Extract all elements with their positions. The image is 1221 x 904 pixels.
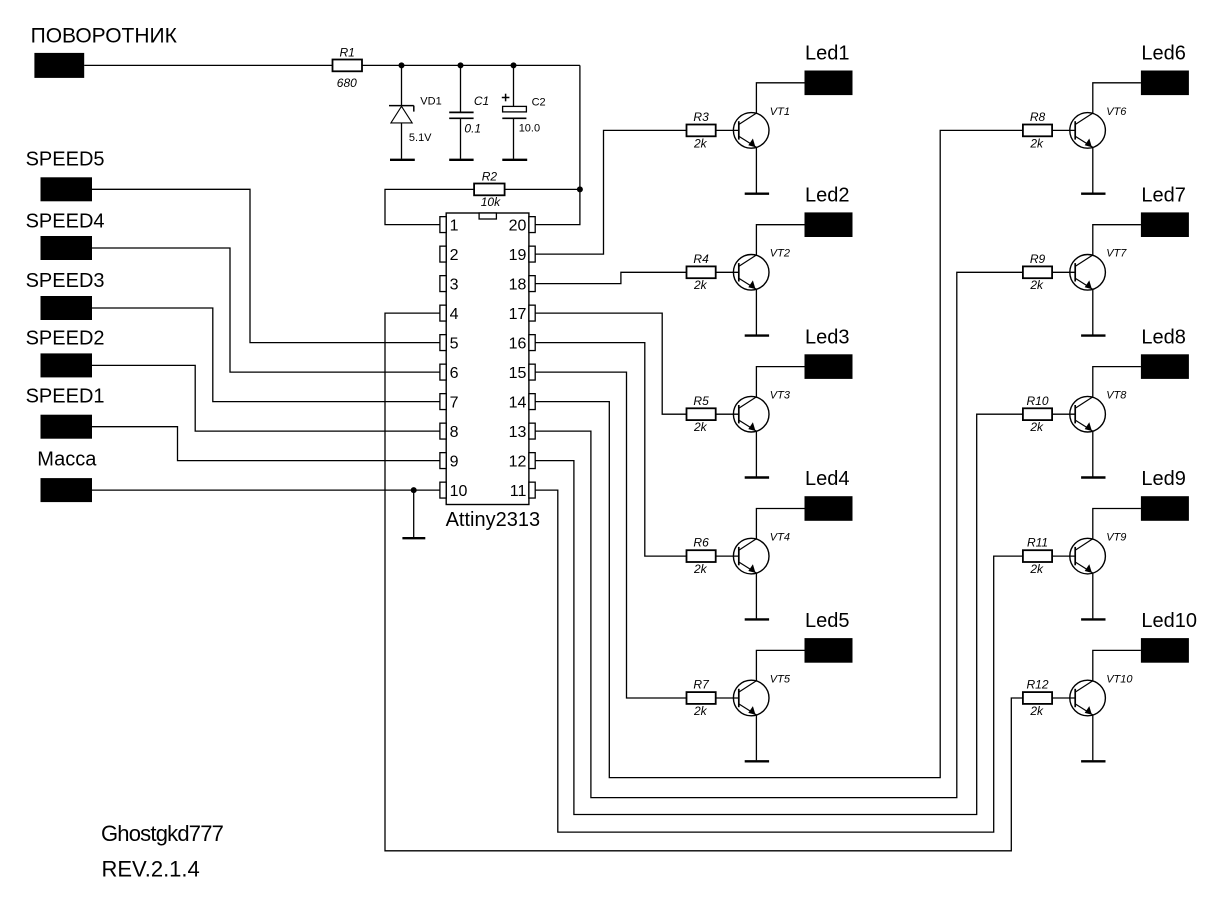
- wire feed to R5: [535, 313, 686, 414]
- ground under VT7: [1081, 334, 1105, 336]
- ground under VT2: [745, 334, 769, 336]
- svg-text:SPEED1: SPEED1: [26, 386, 105, 408]
- label REV.2.1.4: [102, 857, 200, 882]
- wire VT4 collector to Led4: [756, 509, 804, 539]
- svg-text:5.1V: 5.1V: [409, 132, 432, 144]
- svg-text:20: 20: [509, 217, 527, 234]
- pad SPEED1: [26, 386, 105, 439]
- pad Led6: [1141, 43, 1189, 96]
- wire VT5 emitter to ground: [755, 715, 757, 761]
- pad Led8: [1141, 326, 1189, 379]
- pad Led2: [805, 184, 853, 237]
- svg-text:R3: R3: [693, 110, 709, 124]
- wire rail to C2: [513, 65, 515, 106]
- wire VT8 collector to Led8: [1093, 367, 1141, 397]
- svg-text:R10: R10: [1026, 394, 1048, 408]
- svg-text:VD1: VD1: [420, 96, 441, 108]
- wire rail to C1: [460, 65, 462, 111]
- svg-text:C2: C2: [532, 96, 546, 108]
- svg-text:18: 18: [509, 276, 527, 293]
- pin 4: [440, 305, 459, 323]
- pin 14: [509, 394, 536, 412]
- wire SPEED3 to pin: [92, 308, 440, 402]
- svg-text:2k: 2k: [1029, 704, 1044, 718]
- pin 13: [509, 423, 536, 441]
- wire feed to R12: [385, 313, 1023, 851]
- svg-text:Led7: Led7: [1141, 184, 1186, 206]
- ground under VT8: [1081, 476, 1105, 478]
- transistor VT9: [1070, 532, 1127, 574]
- svg-text:VT2: VT2: [770, 248, 790, 260]
- pad ПОВОРОТНИК (turn-signal input): [31, 25, 178, 78]
- svg-text:10: 10: [450, 483, 468, 500]
- svg-text:Led1: Led1: [805, 43, 850, 65]
- wire R9 to base: [1052, 271, 1075, 273]
- wire VD1 anode to ground: [401, 123, 403, 159]
- resistor R7: [687, 678, 716, 718]
- resistor R12: [1023, 678, 1052, 718]
- svg-text:2k: 2k: [1029, 420, 1044, 434]
- ground under VT10: [1081, 760, 1105, 762]
- svg-text:Масса: Масса: [37, 448, 97, 470]
- svg-text:R7: R7: [693, 678, 710, 692]
- ground under VT4: [745, 618, 769, 620]
- wire feed to R7: [535, 372, 686, 698]
- svg-text:15: 15: [509, 365, 527, 382]
- svg-text:2: 2: [450, 247, 459, 264]
- svg-text:Led10: Led10: [1141, 610, 1197, 632]
- svg-text:2k: 2k: [693, 562, 708, 576]
- resistor R3: [687, 110, 716, 150]
- pad Масса: [37, 448, 97, 502]
- pad Led4: [805, 468, 853, 521]
- ground under VD1: [390, 159, 415, 161]
- pad Led7: [1141, 184, 1189, 237]
- wire R4 to base: [716, 271, 739, 273]
- svg-text:R12: R12: [1026, 678, 1048, 692]
- wire VT2 emitter to ground: [755, 289, 757, 335]
- label Attiny2313: [446, 509, 541, 531]
- transistor VT7: [1070, 248, 1127, 290]
- svg-text:11: 11: [510, 483, 527, 500]
- wire Масса to pin 10: [92, 489, 440, 491]
- svg-text:13: 13: [509, 424, 527, 441]
- wire VT3 emitter to ground: [755, 431, 757, 477]
- pin 15: [509, 364, 536, 382]
- svg-text:8: 8: [450, 424, 459, 441]
- pin 2: [440, 246, 459, 264]
- svg-text:680: 680: [337, 76, 357, 90]
- wire VT2 collector to Led2: [756, 225, 804, 255]
- ground at pin 10: [402, 490, 425, 538]
- svg-text:Led2: Led2: [805, 184, 850, 206]
- svg-text:VT10: VT10: [1106, 673, 1133, 685]
- wire R2 right to rail: [505, 188, 580, 190]
- svg-text:Led5: Led5: [805, 610, 850, 632]
- pin 8: [440, 423, 459, 441]
- wire VT5 collector to Led5: [756, 650, 804, 680]
- svg-text:5: 5: [450, 335, 459, 352]
- svg-text:VT9: VT9: [1106, 532, 1126, 544]
- transistor VT5: [733, 673, 790, 715]
- svg-text:2k: 2k: [693, 136, 708, 150]
- svg-text:10k: 10k: [481, 195, 501, 209]
- wire VT7 emitter to ground: [1092, 289, 1094, 335]
- ground under C2: [502, 159, 527, 161]
- svg-text:REV.2.1.4: REV.2.1.4: [102, 857, 200, 882]
- svg-text:VT5: VT5: [770, 673, 791, 685]
- svg-text:2k: 2k: [1029, 136, 1044, 150]
- pin 17: [509, 305, 536, 323]
- junction node pin10/ground: [411, 487, 417, 493]
- svg-text:Led3: Led3: [805, 326, 850, 348]
- wire feed to R3: [535, 130, 686, 254]
- svg-text:SPEED5: SPEED5: [26, 149, 105, 171]
- wire R12 to base: [1052, 697, 1075, 699]
- pin 19: [509, 246, 536, 264]
- ground under VT9: [1081, 618, 1105, 620]
- svg-text:16: 16: [509, 335, 527, 352]
- pin 9: [440, 453, 459, 471]
- svg-text:6: 6: [450, 365, 459, 382]
- resistor R9: [1023, 252, 1052, 292]
- svg-text:Attiny2313: Attiny2313: [446, 509, 541, 531]
- svg-text:C1: C1: [474, 94, 489, 108]
- svg-text:SPEED2: SPEED2: [26, 328, 105, 350]
- wire VT1 emitter to ground: [755, 147, 757, 193]
- pin 12: [509, 453, 536, 471]
- pin 20: [509, 217, 536, 235]
- resistor R4: [687, 252, 716, 292]
- svg-text:VT8: VT8: [1106, 390, 1127, 402]
- svg-text:R1: R1: [340, 45, 355, 59]
- svg-text:Led8: Led8: [1141, 326, 1186, 348]
- svg-text:4: 4: [450, 306, 459, 323]
- resistor R11: [1023, 536, 1052, 576]
- pad Led10: [1141, 610, 1197, 663]
- transistor VT3: [733, 390, 790, 432]
- ground under C1: [449, 159, 473, 161]
- pin 1: [440, 217, 459, 235]
- resistor R1: [333, 45, 363, 90]
- svg-text:1: 1: [450, 217, 459, 234]
- pin 7: [440, 394, 459, 412]
- wire rail to VD1 cathode: [401, 65, 403, 105]
- wire C1 to ground: [460, 118, 462, 159]
- svg-text:R8: R8: [1030, 110, 1046, 124]
- svg-text:2k: 2k: [1029, 562, 1044, 576]
- svg-text:VT7: VT7: [1106, 248, 1127, 260]
- svg-text:2k: 2k: [1029, 278, 1044, 292]
- junction node VD1/rail: [399, 62, 405, 68]
- svg-text:SPEED3: SPEED3: [26, 270, 105, 292]
- wire feed to R11: [535, 490, 1023, 832]
- ground under VT5: [745, 760, 769, 762]
- wire VT10 collector to Led10: [1093, 650, 1141, 680]
- pad Led3: [805, 326, 853, 379]
- svg-text:Led6: Led6: [1141, 43, 1186, 65]
- label Ghostgkd777: [101, 821, 224, 846]
- wire VT3 collector to Led3: [756, 367, 804, 397]
- wire R7 to base: [716, 697, 739, 699]
- pad Led9: [1141, 468, 1189, 521]
- pad SPEED2: [26, 328, 105, 378]
- wire R2 left down to pin 1: [385, 189, 474, 224]
- svg-text:10.0: 10.0: [519, 123, 540, 135]
- wire VT4 emitter to ground: [755, 573, 757, 619]
- resistor R5: [687, 394, 716, 434]
- svg-text:14: 14: [509, 394, 527, 411]
- wire feed to R9: [535, 272, 1023, 797]
- svg-text:9: 9: [450, 453, 459, 470]
- pad Led1: [805, 43, 853, 96]
- svg-text:VT1: VT1: [770, 106, 790, 118]
- wire R10 to base: [1052, 413, 1075, 415]
- wire R8 to base: [1052, 129, 1075, 131]
- svg-text:ПОВОРОТНИК: ПОВОРОТНИК: [31, 25, 178, 48]
- resistor R10: [1023, 394, 1052, 434]
- svg-text:17: 17: [509, 306, 527, 323]
- capacitor C1: [449, 94, 489, 135]
- wire R6 to base: [716, 555, 739, 557]
- svg-text:R2: R2: [482, 169, 498, 183]
- transistor VT10: [1070, 673, 1134, 715]
- svg-text:7: 7: [450, 394, 459, 411]
- pin 3: [440, 276, 459, 294]
- wire VT7 collector to Led7: [1093, 225, 1141, 255]
- wire C2 to ground: [513, 118, 515, 159]
- svg-text:R6: R6: [693, 536, 709, 550]
- zener diode VD1: [389, 96, 442, 145]
- wire feed to R10: [535, 414, 1023, 814]
- transistor VT1: [733, 106, 790, 148]
- svg-text:VT4: VT4: [770, 532, 790, 544]
- ground under VT1: [745, 192, 769, 194]
- pin 18: [509, 276, 536, 294]
- svg-text:12: 12: [509, 453, 527, 470]
- svg-text:19: 19: [509, 247, 527, 264]
- pin 11: [510, 482, 535, 500]
- pad SPEED4: [26, 211, 105, 261]
- ground under VT6: [1081, 192, 1105, 194]
- wire VT9 collector to Led9: [1093, 509, 1141, 539]
- junction node C1/rail: [458, 62, 464, 68]
- wire VCC rail R1 to corner: [362, 64, 580, 66]
- junction node C2/rail: [511, 62, 517, 68]
- pad Led5: [805, 610, 853, 663]
- svg-text:R9: R9: [1030, 252, 1046, 266]
- svg-text:2k: 2k: [693, 704, 708, 718]
- svg-text:R11: R11: [1027, 536, 1048, 550]
- svg-text:VT3: VT3: [770, 390, 791, 402]
- pad SPEED5: [26, 149, 105, 202]
- capacitor C2 (electrolytic): [502, 94, 546, 135]
- wire SPEED2 to pin: [92, 365, 440, 431]
- svg-text:2k: 2k: [693, 278, 708, 292]
- wire feed to R4: [535, 272, 686, 283]
- resistor R8: [1023, 110, 1052, 150]
- wire R5 to base: [716, 413, 739, 415]
- wire R11 to base: [1052, 555, 1075, 557]
- wire VT9 emitter to ground: [1092, 573, 1094, 619]
- wire SPEED4 to pin: [92, 248, 440, 372]
- transistor VT8: [1070, 390, 1127, 432]
- svg-text:Led9: Led9: [1141, 468, 1186, 490]
- transistor VT2: [733, 248, 790, 290]
- svg-text:3: 3: [450, 276, 459, 293]
- wire R3 to base: [716, 129, 739, 131]
- transistor VT6: [1070, 106, 1127, 148]
- wire feed to R6: [535, 343, 686, 556]
- pin 6: [440, 364, 459, 382]
- svg-text:Led4: Led4: [805, 468, 850, 490]
- svg-text:0.1: 0.1: [464, 121, 481, 135]
- wire VT1 collector to Led1: [756, 83, 804, 113]
- wire rail down right side to pin 20: [535, 65, 580, 224]
- wire ПОВОРОТНИК pad to R1: [84, 64, 332, 66]
- pad SPEED3: [26, 270, 105, 320]
- svg-text:2k: 2k: [693, 420, 708, 434]
- junction node R2 right / rail: [577, 186, 583, 192]
- resistor R2: [474, 169, 505, 209]
- wire VT10 emitter to ground: [1092, 715, 1094, 761]
- wire VT6 emitter to ground: [1092, 147, 1094, 193]
- transistor VT4: [733, 532, 790, 574]
- wire SPEED1 to pin: [92, 427, 440, 461]
- pin 5: [440, 335, 459, 353]
- svg-text:R5: R5: [693, 394, 709, 408]
- pin 10: [440, 482, 468, 500]
- wire SPEED5 to pin: [92, 189, 440, 342]
- svg-text:SPEED4: SPEED4: [26, 211, 105, 233]
- pin 16: [509, 335, 536, 353]
- ground under VT3: [745, 476, 769, 478]
- wire VT6 collector to Led6: [1093, 83, 1141, 113]
- op-amp U1 body Attiny2313: [446, 213, 529, 505]
- svg-text:VT6: VT6: [1106, 106, 1127, 118]
- wire VT8 emitter to ground: [1092, 431, 1094, 477]
- wire feed to R8: [535, 130, 1023, 777]
- svg-text:Ghostgkd777: Ghostgkd777: [101, 821, 224, 846]
- resistor R6: [687, 536, 716, 576]
- svg-text:R4: R4: [693, 252, 709, 266]
